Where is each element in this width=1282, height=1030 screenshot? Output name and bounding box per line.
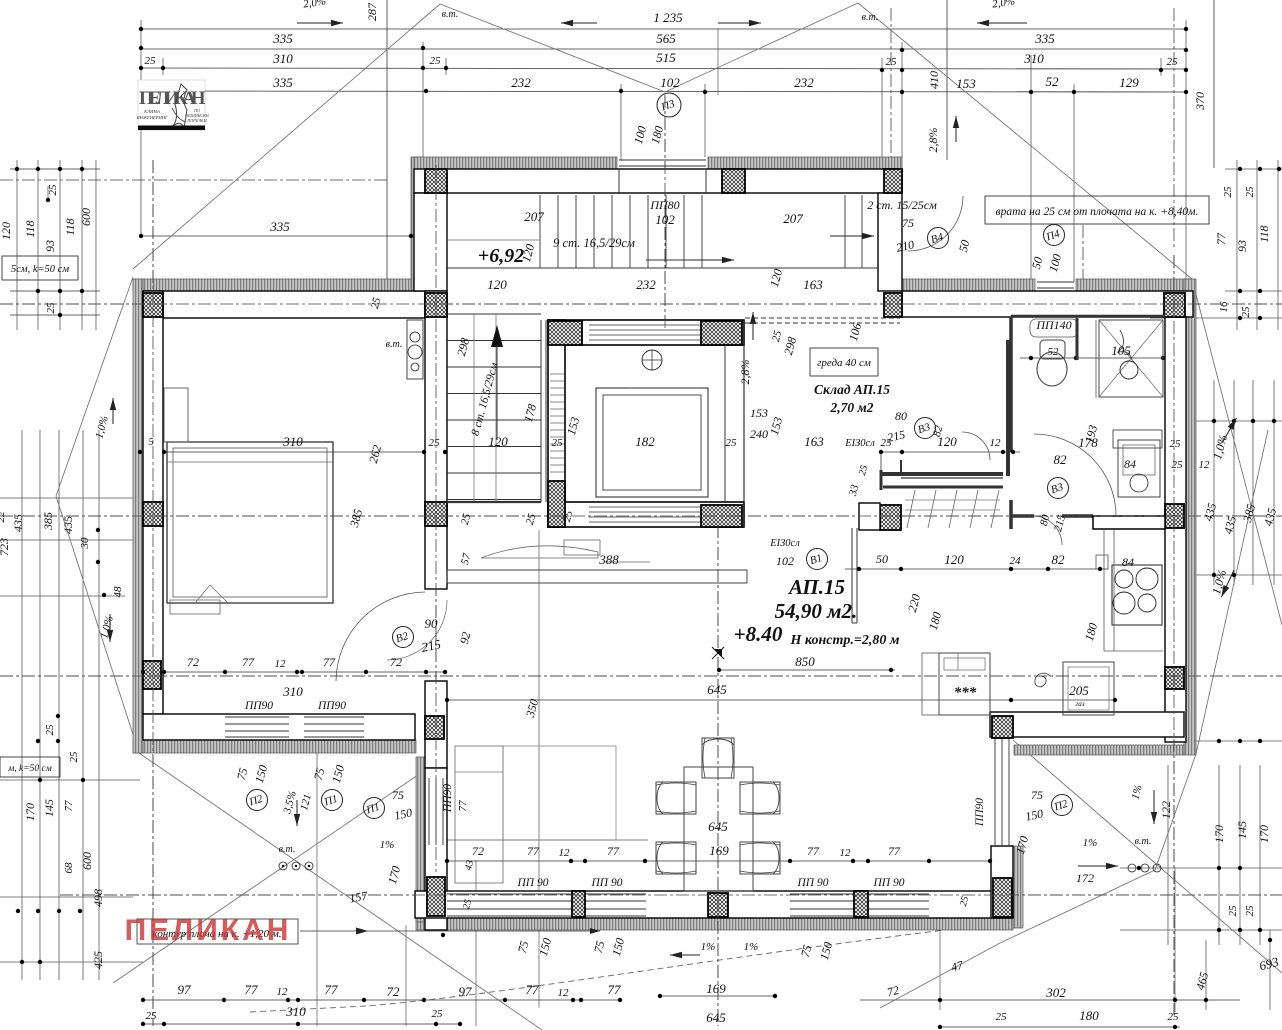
svg-text:72: 72 (472, 844, 484, 858)
svg-text:2,8%: 2,8% (738, 360, 752, 385)
svg-text:335: 335 (272, 31, 293, 46)
svg-text:645: 645 (706, 1010, 726, 1025)
svg-text:75: 75 (1031, 788, 1043, 802)
svg-text:169: 169 (709, 843, 729, 858)
svg-text:240: 240 (750, 427, 768, 441)
svg-text:25: 25 (1244, 186, 1256, 198)
svg-text:АП.15: АП.15 (787, 575, 845, 599)
svg-text:205: 205 (1069, 683, 1089, 698)
svg-text:25: 25 (44, 724, 56, 736)
svg-text:600: 600 (80, 852, 94, 870)
svg-text:77: 77 (526, 982, 540, 997)
svg-text:170: 170 (23, 803, 37, 821)
svg-text:145: 145 (1235, 821, 1249, 839)
svg-text:84: 84 (1124, 457, 1136, 471)
svg-text:в.т.: в.т. (1135, 836, 1152, 847)
svg-text:102: 102 (655, 212, 675, 227)
svg-text:25: 25 (146, 1010, 158, 1022)
svg-text:54,90 м2.: 54,90 м2. (775, 599, 858, 623)
svg-text:410: 410 (927, 71, 941, 89)
svg-text:77: 77 (457, 800, 469, 812)
svg-text:газ: газ (1076, 700, 1085, 708)
svg-text:335: 335 (272, 75, 293, 90)
svg-text:52: 52 (1046, 74, 1060, 89)
svg-text:120: 120 (487, 277, 507, 292)
svg-text:ПЕЛИКАН: ПЕЛИКАН (125, 914, 292, 947)
svg-text:25: 25 (47, 184, 59, 196)
svg-text:25: 25 (552, 437, 564, 449)
svg-text:129: 129 (1119, 75, 1139, 90)
svg-text:в.т.: в.т. (279, 844, 296, 855)
svg-text:22: 22 (0, 511, 7, 523)
svg-text:2 ст. 15/25см: 2 ст. 15/25см (867, 198, 937, 212)
svg-text:80: 80 (895, 409, 907, 423)
svg-text:153: 153 (956, 76, 976, 91)
svg-text:25: 25 (1172, 459, 1184, 471)
svg-text:93: 93 (1235, 240, 1249, 252)
svg-text:118: 118 (1257, 225, 1271, 242)
svg-text:645: 645 (707, 682, 727, 697)
svg-text:77: 77 (608, 982, 622, 997)
svg-text:97: 97 (178, 982, 192, 997)
svg-text:в.т.: в.т. (862, 12, 879, 23)
svg-text:850: 850 (795, 654, 815, 669)
svg-text:723: 723 (0, 538, 11, 556)
svg-text:84: 84 (1122, 555, 1134, 569)
svg-text:97: 97 (459, 984, 473, 999)
svg-text:75: 75 (902, 216, 914, 230)
svg-text:120: 120 (488, 434, 508, 449)
svg-text:82: 82 (1052, 552, 1066, 567)
svg-text:232: 232 (511, 75, 531, 90)
svg-text:16: 16 (1218, 301, 1230, 313)
svg-text:163: 163 (804, 434, 824, 449)
svg-text:ПП 90: ПП 90 (591, 877, 623, 889)
svg-text:25: 25 (1222, 186, 1234, 198)
svg-text:25: 25 (145, 55, 157, 67)
svg-text:120: 120 (0, 222, 13, 240)
svg-text:232: 232 (794, 75, 814, 90)
svg-text:ПП80: ПП80 (649, 198, 679, 212)
svg-text:77: 77 (245, 982, 259, 997)
svg-text:25: 25 (432, 1008, 444, 1020)
svg-text:287: 287 (365, 2, 379, 21)
svg-text:435: 435 (61, 516, 75, 534)
svg-text:600: 600 (79, 208, 93, 226)
svg-text:118: 118 (23, 220, 37, 237)
svg-text:105: 105 (1111, 343, 1131, 358)
svg-text:+6,92: +6,92 (478, 245, 524, 267)
svg-text:врата на 25 см от плочата на к: врата на 25 см от плочата на к. +8,40м. (996, 206, 1199, 218)
svg-text:52: 52 (1048, 346, 1060, 358)
svg-text:25: 25 (1227, 905, 1239, 917)
svg-text:77: 77 (527, 844, 540, 858)
svg-text:93: 93 (43, 240, 57, 252)
svg-text:Н констр.=2,80 м: Н констр.=2,80 м (790, 633, 900, 648)
svg-text:72: 72 (390, 655, 402, 669)
svg-text:КЛИМА: КЛИМА (143, 109, 160, 114)
svg-text:153: 153 (750, 406, 768, 420)
svg-text:2,8%: 2,8% (926, 128, 940, 153)
svg-text:169: 169 (706, 981, 726, 996)
svg-text:77: 77 (323, 655, 336, 669)
svg-text:48: 48 (112, 586, 124, 598)
svg-text:77: 77 (807, 844, 820, 858)
svg-text:565: 565 (656, 31, 676, 46)
svg-text:ИНЖЕНЕРИНГ: ИНЖЕНЕРИНГ (135, 115, 168, 120)
svg-text:498: 498 (91, 889, 105, 907)
svg-text:335: 335 (269, 219, 290, 234)
svg-text:25: 25 (45, 302, 57, 314)
svg-text:ПП90: ПП90 (974, 798, 986, 827)
svg-text:24: 24 (1010, 555, 1022, 567)
svg-text:12: 12 (559, 847, 571, 859)
svg-text:в.т.: в.т. (442, 9, 459, 20)
svg-text:25: 25 (1244, 905, 1256, 917)
svg-text:118: 118 (63, 218, 77, 235)
svg-text:ЕІЗ0сл: ЕІЗ0сл (769, 538, 800, 549)
svg-text:25: 25 (1167, 56, 1179, 68)
svg-text:25: 25 (1170, 438, 1182, 450)
svg-text:+8.40: +8.40 (734, 622, 783, 646)
svg-text:ПП90: ПП90 (442, 784, 454, 813)
svg-text:ПЕЛИКАН: ПЕЛИКАН (139, 88, 206, 109)
svg-text:72: 72 (187, 655, 199, 669)
svg-text:90: 90 (425, 616, 439, 631)
svg-text:1%: 1% (701, 941, 716, 953)
svg-text:12: 12 (1199, 459, 1211, 471)
svg-text:ПП140: ПП140 (1035, 318, 1071, 332)
svg-text:ЕІЗ0сл: ЕІЗ0сл (844, 438, 875, 449)
svg-text:82: 82 (1054, 452, 1068, 467)
svg-text:12: 12 (990, 437, 1002, 449)
svg-text:12: 12 (277, 986, 289, 998)
svg-text:170: 170 (1257, 825, 1271, 843)
svg-text:1 235: 1 235 (653, 10, 683, 25)
svg-text:ПП 90: ПП 90 (873, 877, 905, 889)
svg-text:170: 170 (1212, 825, 1226, 843)
svg-text:68: 68 (63, 862, 75, 874)
svg-text:ПП90: ПП90 (244, 700, 273, 712)
svg-text:172: 172 (1076, 871, 1094, 885)
svg-text:1%: 1% (744, 941, 759, 953)
svg-text:2,70 м2: 2,70 м2 (830, 400, 874, 415)
svg-text:385: 385 (41, 512, 55, 531)
svg-text:388: 388 (598, 552, 619, 567)
svg-text:Склад АП.15: Склад АП.15 (814, 382, 890, 397)
svg-text:ПП 90: ПП 90 (797, 877, 829, 889)
svg-text:77: 77 (325, 982, 339, 997)
svg-text:***: *** (954, 685, 977, 701)
svg-text:102: 102 (660, 75, 680, 90)
svg-text:302: 302 (1045, 985, 1066, 1000)
svg-text:370: 370 (1193, 92, 1207, 111)
svg-text:греда 40 см: греда 40 см (817, 357, 871, 369)
svg-text:77: 77 (242, 655, 255, 669)
svg-text:515: 515 (656, 50, 676, 65)
svg-text:77: 77 (888, 844, 901, 858)
svg-text:425: 425 (91, 951, 105, 969)
svg-text:30: 30 (79, 537, 91, 550)
svg-text:77: 77 (63, 800, 75, 812)
svg-text:122: 122 (1159, 801, 1173, 819)
svg-text:25: 25 (1168, 1011, 1180, 1023)
svg-text:310: 310 (272, 51, 293, 66)
svg-text:25: 25 (430, 55, 442, 67)
svg-text:182: 182 (635, 434, 655, 449)
svg-text:72: 72 (387, 984, 401, 999)
svg-text:9 ст. 16,5/29см: 9 ст. 16,5/29см (553, 236, 635, 250)
svg-text:25: 25 (886, 56, 898, 68)
svg-text:180: 180 (1079, 1008, 1099, 1023)
svg-text:645: 645 (708, 819, 728, 834)
svg-text:ПОРЪЧКИ: ПОРЪЧКИ (186, 118, 207, 123)
svg-text:310: 310 (282, 684, 303, 699)
svg-text:25: 25 (429, 437, 441, 449)
svg-text:м, k=50 см: м, k=50 см (7, 764, 52, 774)
svg-text:5: 5 (149, 437, 154, 448)
svg-text:163: 163 (803, 277, 823, 292)
svg-text:5см, k=50 см: 5см, k=50 см (11, 264, 69, 275)
svg-text:ПП90: ПП90 (317, 700, 346, 712)
svg-text:12: 12 (558, 987, 570, 999)
svg-text:25: 25 (1240, 306, 1252, 318)
svg-text:25: 25 (996, 1011, 1008, 1023)
svg-text:50: 50 (876, 552, 888, 566)
svg-text:25: 25 (68, 751, 80, 763)
svg-text:310: 310 (285, 1004, 306, 1019)
svg-text:1%: 1% (380, 839, 395, 851)
svg-text:145: 145 (42, 799, 56, 817)
svg-text:102: 102 (776, 554, 794, 568)
svg-text:12: 12 (840, 847, 852, 859)
svg-text:1%: 1% (1083, 837, 1098, 849)
svg-text:120: 120 (937, 434, 957, 449)
svg-text:310: 310 (282, 434, 303, 449)
svg-text:232: 232 (636, 277, 656, 292)
svg-text:435: 435 (11, 514, 25, 532)
svg-text:335: 335 (1034, 31, 1055, 46)
svg-text:25: 25 (726, 437, 738, 449)
svg-text:77: 77 (607, 844, 620, 858)
svg-text:77: 77 (1214, 232, 1228, 245)
svg-text:75: 75 (392, 788, 404, 802)
svg-text:120: 120 (944, 552, 964, 567)
svg-text:ПП 90: ПП 90 (517, 877, 549, 889)
svg-text:в.т.: в.т. (386, 339, 403, 350)
svg-text:207: 207 (524, 209, 544, 224)
svg-text:207: 207 (783, 211, 803, 226)
svg-text:310: 310 (1023, 51, 1044, 66)
svg-text:12: 12 (275, 658, 287, 670)
